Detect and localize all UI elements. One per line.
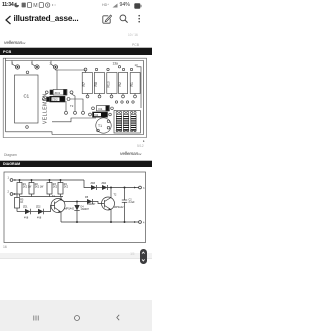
- svg-text:R2: R2: [118, 82, 122, 86]
- diode D2: [89, 113, 92, 116]
- page gap: [0, 252, 152, 255]
- svg-text:3: 3: [31, 62, 33, 66]
- T1 emitter wire: [60, 212, 62, 222]
- svg-text:ZD3: ZD3: [91, 182, 96, 185]
- resistor R1: [19, 180, 21, 183]
- caps block frame: [114, 111, 140, 134]
- cap C4: [131, 115, 136, 131]
- page 2 footer: [4, 153, 17, 157]
- resistor R2: [119, 73, 128, 94]
- wire: [65, 101, 67, 111]
- resistor R8: [94, 73, 104, 94]
- resistor R10: [107, 73, 117, 94]
- svg-text:ZD4: ZD4: [102, 182, 107, 185]
- bottom rail: [61, 221, 139, 223]
- svg-text:ZD1: ZD1: [23, 206, 28, 209]
- resistor R7: [82, 73, 92, 94]
- page num 16: [3, 245, 7, 249]
- svg-text:4V8: 4V8: [37, 217, 42, 220]
- svg-text:M: M: [33, 3, 37, 8]
- zener ZD1: [25, 209, 31, 214]
- resistor R2: [31, 180, 33, 183]
- terminal 4: [139, 221, 142, 224]
- drawing frame: [3, 58, 146, 137]
- svg-text:ZD2: ZD2: [36, 206, 41, 209]
- svg-text:T2: T2: [70, 104, 74, 108]
- menu dots: [137, 14, 142, 24]
- svg-text:2K2: 2K2: [53, 185, 58, 188]
- cap C2: [116, 115, 121, 131]
- resistor R1: [130, 73, 140, 94]
- page 1 footer: velleman logo: [4, 40, 25, 45]
- status bar: [0, 0, 152, 11]
- title bar: [4, 15, 13, 25]
- edit icon: [102, 14, 112, 24]
- schematic: [0, 170, 152, 252]
- svg-text:1: 1: [8, 177, 10, 180]
- wire down to ZD1: [56, 70, 58, 90]
- wire to T2 base: [93, 202, 105, 204]
- terminal 3: [139, 186, 142, 189]
- node D4: [76, 201, 77, 202]
- rail drop: [84, 180, 91, 188]
- svg-text:3: 3: [143, 187, 145, 190]
- scroll indicator: [130, 251, 134, 256]
- svg-text:C1: C1: [24, 94, 30, 99]
- svg-text:R10: R10: [107, 81, 111, 87]
- top rail: [20, 179, 84, 181]
- svg-text:D1: D1: [99, 107, 103, 111]
- status icons right: [102, 3, 109, 7]
- svg-text:R7: R7: [82, 82, 86, 86]
- svg-text:13a: 13a: [113, 62, 119, 66]
- svg-text:13: 13: [135, 63, 139, 67]
- diode D3: [91, 185, 97, 190]
- nav bar: [0, 300, 152, 331]
- svg-text:R8: R8: [94, 82, 98, 86]
- zener ZD1: [45, 91, 48, 94]
- T2 emitter: [110, 210, 112, 223]
- svg-text:T2: T2: [114, 194, 117, 197]
- pad SK3: [53, 65, 57, 69]
- svg-text:MPSA42: MPSA42: [114, 206, 124, 209]
- board notch: [6, 132, 53, 135]
- svg-text:4: 4: [143, 222, 145, 225]
- svg-text:2K2 1W: 2K2 1W: [35, 185, 44, 188]
- page boundary line: [0, 47, 152, 48]
- pad SK1: [15, 65, 19, 69]
- DIAGRAM section bar: [0, 161, 152, 167]
- wire: [72, 94, 76, 111]
- svg-text:2K2 1W: 2K2 1W: [23, 185, 32, 188]
- svg-text:MPSA42: MPSA42: [65, 208, 75, 211]
- svg-text:R1: R1: [130, 82, 134, 86]
- zener ZD2: [38, 209, 44, 214]
- wire stub pad1: [12, 61, 16, 67]
- svg-text:1N4007: 1N4007: [81, 208, 90, 211]
- transistor T1: [51, 199, 65, 213]
- wire stub pad3: [51, 61, 54, 67]
- pads above block: [115, 101, 117, 103]
- resistor R4: [60, 180, 62, 183]
- pad SK2: [35, 65, 39, 69]
- wire: [97, 187, 103, 189]
- transistor T1: [96, 118, 111, 133]
- svg-text:T1: T1: [98, 124, 102, 128]
- frame: [4, 172, 146, 243]
- board outline: [6, 58, 144, 134]
- right arrow mark: [143, 139, 145, 143]
- pad C1 top: [26, 71, 29, 74]
- capacitor C2: [124, 188, 126, 201]
- search icon: [119, 14, 129, 24]
- svg-text:D5: D5: [85, 196, 89, 199]
- cap C3: [123, 115, 128, 131]
- node T1c: [60, 199, 61, 200]
- pad b: [74, 111, 77, 114]
- svg-text:D4: D4: [95, 113, 99, 117]
- T2 collector: [110, 188, 112, 198]
- pad a: [65, 111, 68, 114]
- pad c: [82, 111, 85, 114]
- wire to T1 base: [44, 206, 55, 212]
- capacitor C1 body: [15, 75, 39, 123]
- resistor R3: [49, 180, 51, 183]
- zener ZD2: [42, 98, 45, 101]
- PCB drawing: [0, 56, 152, 140]
- svg-text:1N4007: 1N4007: [87, 203, 96, 206]
- wire: [70, 99, 83, 111]
- wire: [31, 211, 39, 213]
- wire from pad3: [56, 69, 86, 70]
- diode D5: [87, 199, 93, 204]
- wire to ZD1: [17, 211, 25, 213]
- svg-text:2K2: 2K2: [64, 185, 69, 188]
- status icons left: [14, 2, 56, 8]
- pad C1 bottom: [26, 126, 29, 129]
- wire T1 to D5: [61, 200, 87, 202]
- wire stub pad2: [32, 61, 35, 67]
- svg-text:ZD1: ZD1: [55, 91, 61, 95]
- transistor T2: [102, 197, 115, 210]
- node R1 top: [19, 179, 20, 180]
- top right rail: [108, 187, 139, 189]
- T1 collector wire: [60, 197, 62, 200]
- diode D6: [102, 185, 108, 190]
- svg-text:4V8: 4V8: [24, 217, 29, 220]
- svg-text:ZD2: ZD2: [52, 98, 58, 102]
- svg-text:2: 2: [8, 191, 10, 194]
- page boundary line 2: [0, 160, 152, 161]
- resistor R5: [15, 198, 20, 209]
- svg-text:1K: 1K: [20, 201, 23, 204]
- svg-text:2.2uF: 2.2uF: [129, 201, 136, 204]
- PCB section bar: [0, 48, 152, 55]
- resistor bus: [20, 196, 64, 198]
- diode D4 vertical: [76, 202, 78, 206]
- diode D1: [92, 107, 95, 110]
